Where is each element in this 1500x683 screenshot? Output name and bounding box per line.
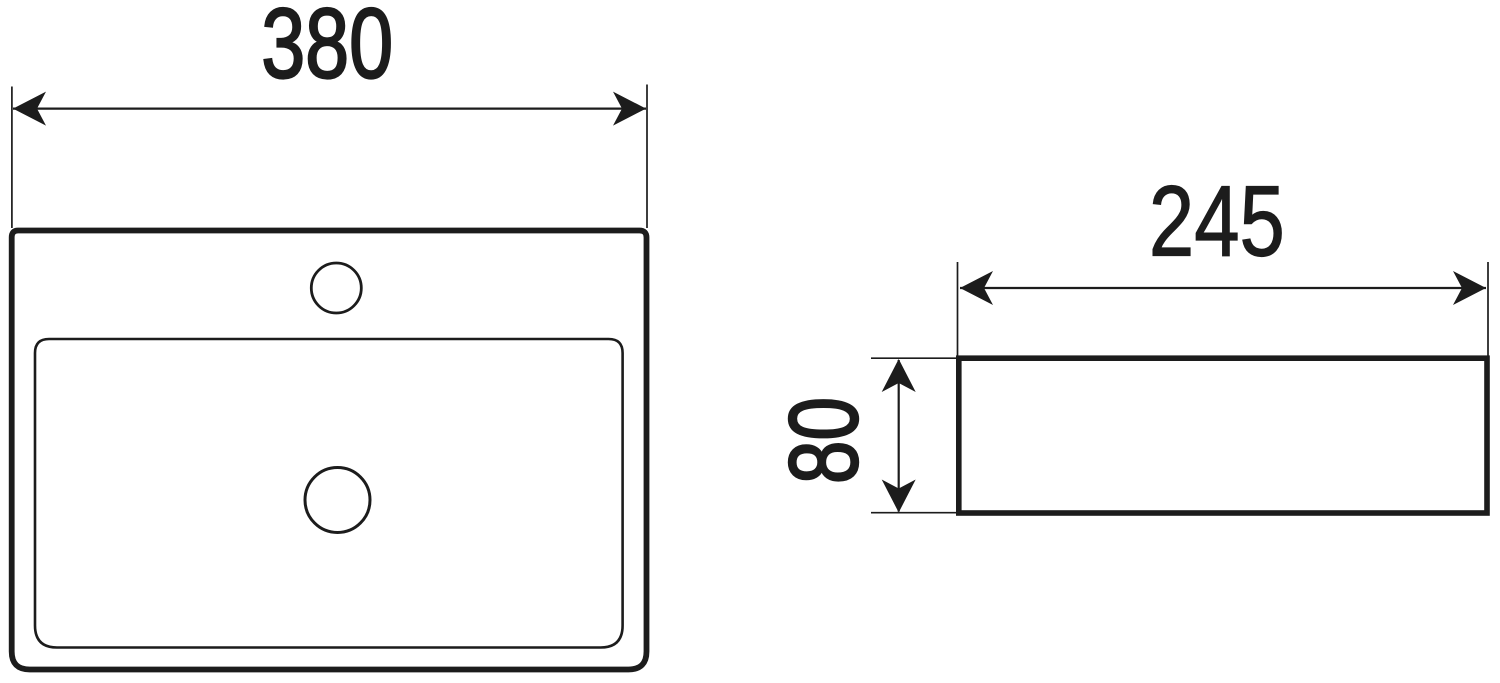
extension line right (380) [646,85,648,229]
svg-text:245: 245 [1149,166,1285,278]
sink basin inner edge (top view) [35,339,623,648]
extension line top (80) [871,357,956,359]
arrowhead right (380) [613,92,646,126]
arrowhead left (245) [960,271,993,305]
arrowhead right (245) [1453,271,1486,305]
arrowhead down (80) [882,480,916,513]
svg-text:380: 380 [261,0,393,99]
arrowhead up (80) [882,359,916,392]
drain hole [305,468,370,533]
faucet hole [311,263,361,313]
sink outer rim (top view) [12,231,647,670]
svg-text:80: 80 [769,397,878,484]
dimension line 380 [13,107,646,109]
extension line right (245) [1487,262,1489,356]
dimension line 245 [960,287,1486,289]
cabinet front rectangle (side view) [959,358,1487,513]
extension line bottom (80) [871,512,956,514]
extension line left (245) [957,262,959,356]
dimension line 80 [898,360,900,512]
arrowhead left (380) [13,92,46,126]
extension line left (380) [11,87,13,229]
